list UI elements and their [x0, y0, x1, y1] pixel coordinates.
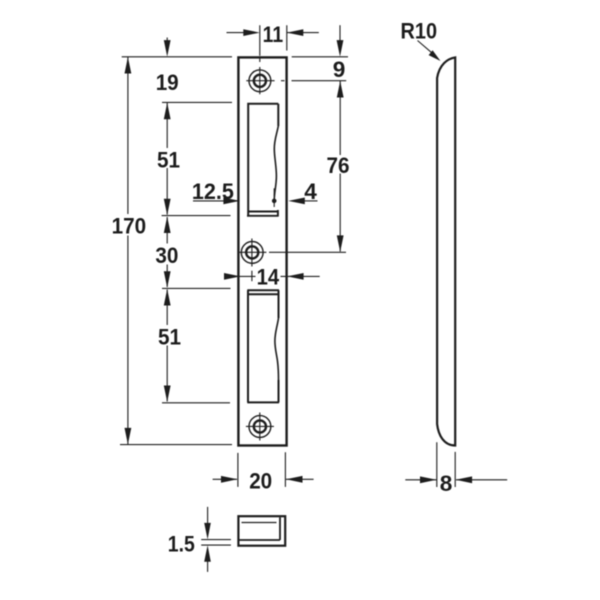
ext cutout1 top — [162, 101, 232, 103]
svg-text:51: 51 — [158, 324, 181, 349]
svg-text:14: 14 — [257, 264, 280, 289]
arrow 8 left — [420, 476, 437, 483]
arrow 19 down — [164, 40, 171, 57]
arrow 14 left — [224, 273, 241, 280]
arrow 1.5 down — [204, 523, 211, 540]
dim 76 line — [339, 81, 341, 252]
dim 20 tails — [213, 478, 314, 480]
dimension lines thin — [120, 25, 507, 572]
arrow 76 down — [337, 235, 344, 252]
ext hole1 right — [292, 80, 347, 82]
ext top plate left — [122, 56, 232, 58]
section view bottom — [238, 516, 285, 546]
svg-text:76: 76 — [327, 153, 350, 178]
ext 9 top right — [292, 56, 348, 58]
arrow 11 right — [287, 29, 304, 36]
ext cutout1 bottom — [162, 215, 231, 217]
dim 19 tail — [166, 38, 168, 45]
arrow 20 right — [286, 476, 303, 483]
arrow 170 up — [125, 57, 132, 74]
svg-text:1.5: 1.5 — [168, 531, 195, 556]
arrow 8 right — [456, 476, 473, 483]
dim 170 line — [127, 57, 129, 444]
node latch line — [273, 188, 275, 196]
svg-text:4: 4 — [304, 179, 317, 204]
ext cutout2 bottom — [162, 402, 230, 404]
arrowheads — [125, 29, 473, 562]
dim 12.5 line — [193, 200, 239, 202]
arrow 170 down — [125, 428, 132, 445]
svg-text:170: 170 — [112, 214, 147, 239]
svg-text:51: 51 — [157, 148, 180, 173]
dim 11 tails — [227, 32, 319, 34]
svg-text:8: 8 — [440, 471, 453, 496]
arrow 12.5 right — [223, 198, 240, 205]
dim 51b line — [166, 290, 168, 402]
screw hole top — [246, 59, 284, 95]
latch curve lower — [275, 318, 279, 380]
arrow 11 left — [243, 29, 259, 36]
arrow 51b up — [164, 289, 171, 306]
arrow 14 right — [287, 273, 304, 280]
dim 51a line — [166, 103, 168, 215]
ext 20 lines — [238, 452, 286, 487]
svg-text:9: 9 — [333, 57, 346, 82]
dim 30 line — [166, 217, 168, 287]
latch curve upper — [274, 126, 278, 201]
arrow 76 up — [337, 81, 344, 98]
arrow R10 leader — [429, 50, 441, 61]
dim 4 tail — [302, 200, 318, 202]
dim 8 tails — [405, 479, 507, 481]
svg-text:12.5: 12.5 — [192, 179, 234, 204]
arrow 30 down — [164, 271, 171, 288]
arrow 30 up — [164, 217, 171, 234]
arrow 20 left — [221, 476, 238, 483]
ext hole2 right — [269, 251, 346, 253]
arrow 9 down — [337, 40, 344, 57]
latch cutout upper — [247, 104, 278, 217]
dim 1.5 ext lines — [201, 540, 231, 546]
svg-text:30: 30 — [155, 243, 178, 268]
plate outline front view — [238, 57, 286, 445]
latch cutout lower — [247, 290, 279, 402]
arrow 51b down — [164, 386, 171, 403]
svg-text:20: 20 — [249, 469, 272, 494]
arrow 1.5 up — [204, 545, 211, 562]
leader R10 — [418, 41, 434, 54]
svg-text:19: 19 — [156, 70, 179, 95]
arrow 4 left — [288, 198, 305, 205]
svg-text:11: 11 — [263, 22, 284, 47]
node dot latch — [272, 199, 277, 204]
screw hole bottom — [246, 413, 274, 441]
svg-text:R10: R10 — [401, 19, 438, 44]
screw hole middle — [239, 239, 267, 282]
arrow 51a up — [164, 103, 171, 120]
dim 1.5 line — [207, 507, 209, 572]
ext plate bottom — [120, 444, 232, 446]
arrow 51a down — [164, 199, 171, 216]
ext cutout2 top — [162, 287, 231, 289]
ext 11 lines — [260, 25, 287, 56]
dim 9 tail — [339, 25, 341, 43]
ext 8 lines — [437, 442, 455, 487]
dim 14 line — [227, 275, 320, 277]
side view profile — [437, 57, 455, 445]
